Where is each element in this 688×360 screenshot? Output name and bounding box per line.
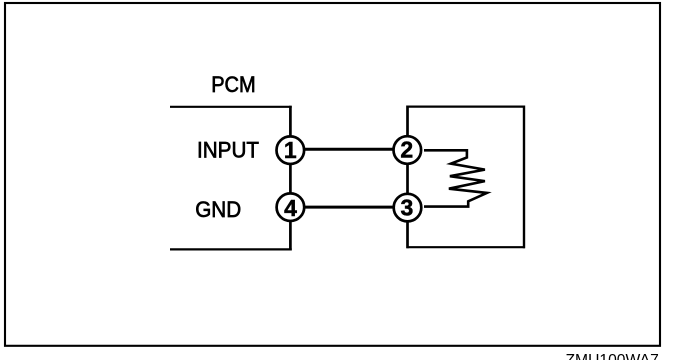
svg-text:3: 3 (401, 195, 414, 221)
svg-text:GND: GND (195, 197, 241, 222)
svg-text:INPUT: INPUT (197, 138, 259, 163)
svg-text:PCM: PCM (211, 72, 256, 97)
svg-text:ZMU100WA7: ZMU100WA7 (566, 352, 659, 360)
svg-text:4: 4 (284, 195, 297, 221)
svg-text:2: 2 (400, 137, 413, 163)
svg-text:1: 1 (284, 137, 297, 163)
